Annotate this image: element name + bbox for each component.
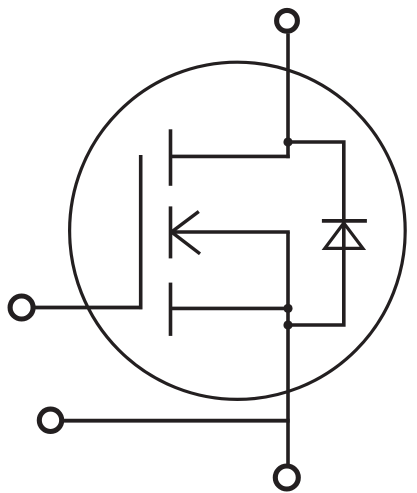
arrow upper arm of body contact — [172, 212, 199, 233]
transistor Q1 envelope circle — [70, 62, 406, 399]
source terminal pin circle — [275, 466, 298, 489]
channel bar: drain segment — [169, 129, 173, 186]
drain terminal pin circle — [277, 10, 298, 31]
node: drain junction dot — [283, 137, 292, 146]
arrow lower arm of body contact — [172, 232, 201, 254]
tab terminal pin circle — [39, 409, 61, 431]
node: source junction dot for diode — [283, 320, 292, 329]
node: source junction dot — [283, 304, 292, 313]
channel bar: body segment — [169, 206, 173, 258]
wire: drain vertical from top pin — [286, 34, 290, 159]
wire: tab lead from tab pin — [62, 419, 290, 423]
wire: gate lead from gate pin — [33, 306, 142, 310]
diode D1 anode triangle — [325, 223, 363, 248]
gate electrode bar — [139, 155, 143, 309]
wire: source horizontal to channel — [170, 307, 288, 311]
diode D1 cathode bar — [322, 219, 367, 223]
wire: diode branch top / right / bottom — [288, 142, 344, 325]
wire: drain horizontal to channel — [170, 155, 290, 159]
wire: body/source vertical down to source pin — [286, 232, 290, 466]
gate terminal pin circle — [10, 296, 33, 319]
wire: body connection horizontal — [172, 230, 290, 234]
channel bar: source segment — [169, 283, 173, 336]
